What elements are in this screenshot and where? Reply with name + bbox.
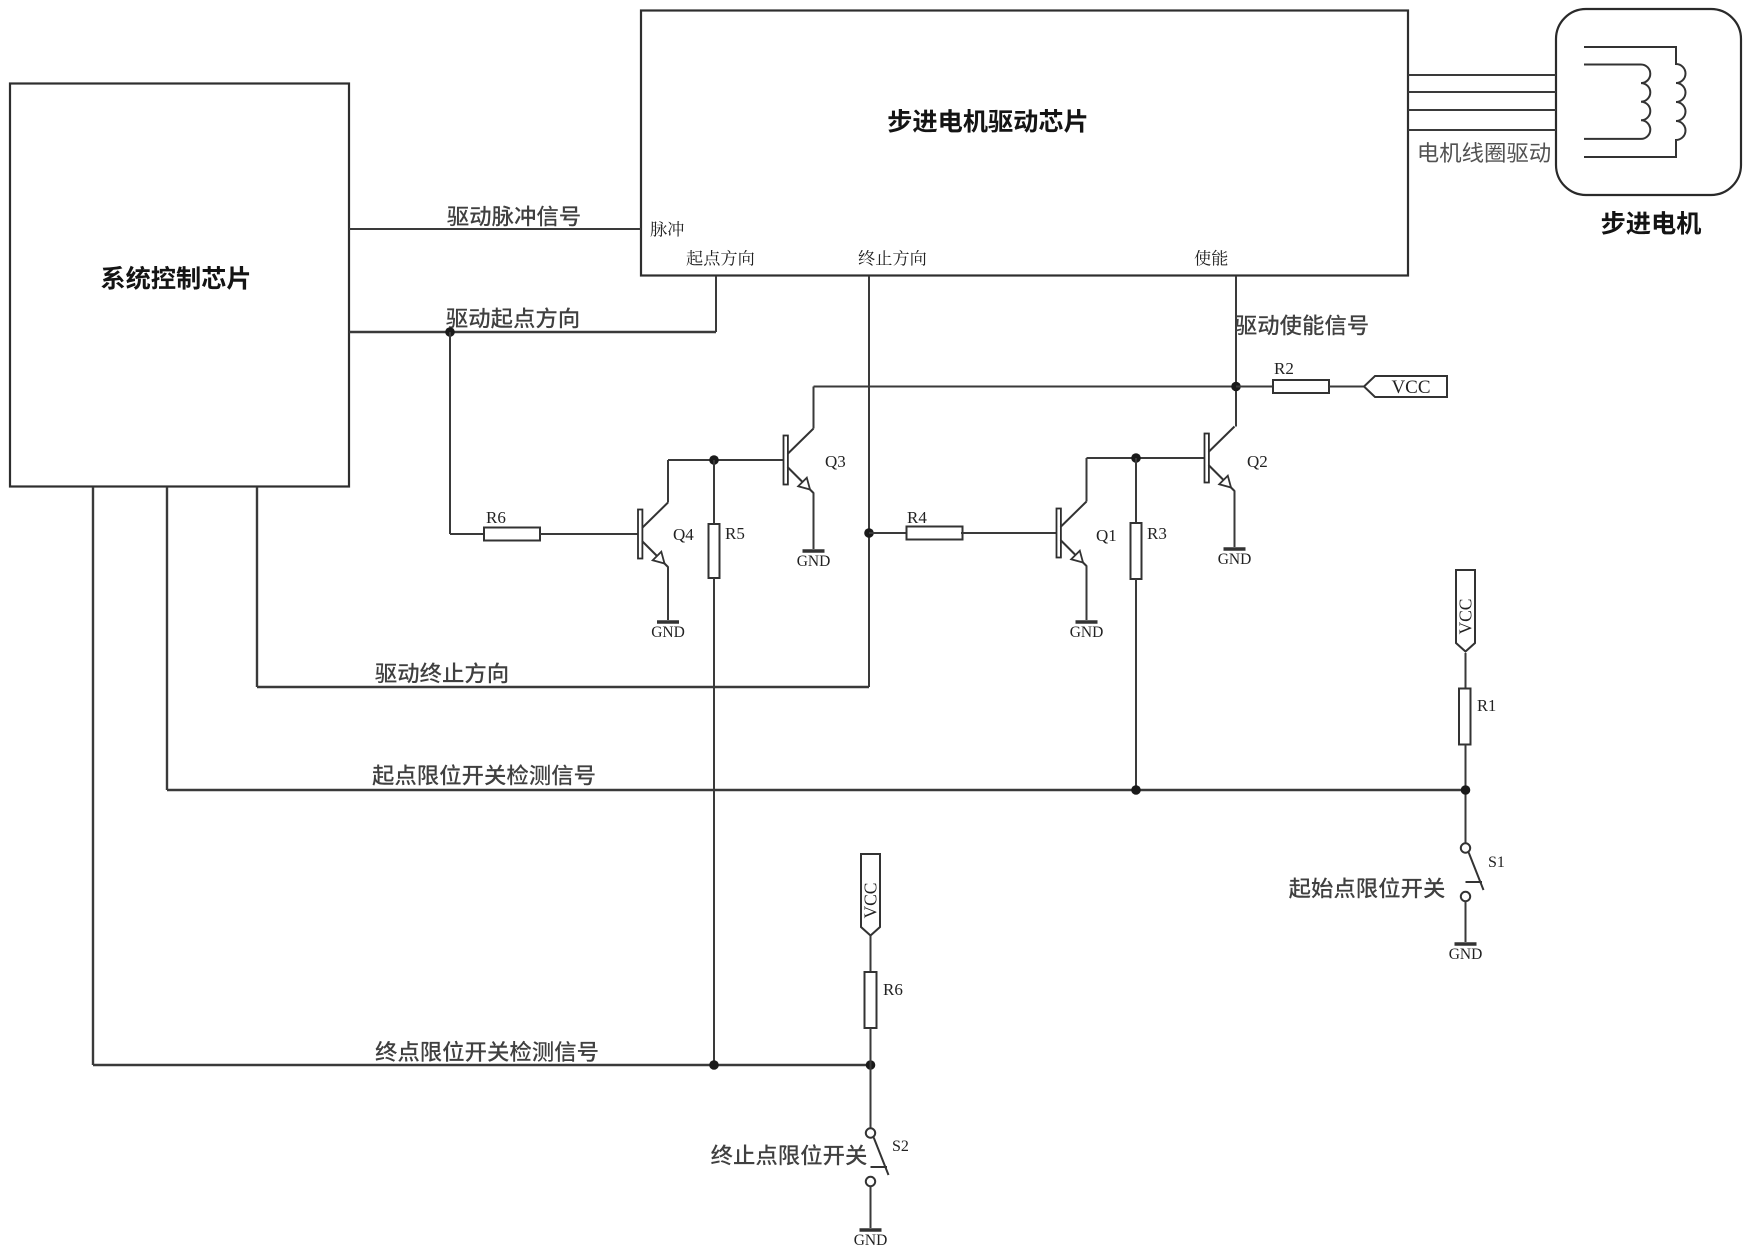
label 驱动脉冲信号 — [447, 205, 579, 226]
svg-text:GND: GND — [1449, 946, 1483, 963]
pin label 终止方向 — [859, 250, 926, 266]
label 起始点限位开关 — [1289, 877, 1445, 898]
power symbol VCC (R6 chain) — [860, 854, 880, 936]
resistor R6 (base of Q4) — [484, 508, 540, 541]
wire R6 to Q4 base — [540, 533, 638, 535]
svg-text:VCC: VCC — [1455, 599, 1475, 635]
pin label 起点方向 — [687, 250, 754, 266]
svg-text:R6: R6 — [486, 508, 506, 527]
ground Q3 — [797, 551, 831, 570]
svg-text:R5: R5 — [725, 524, 745, 543]
svg-text:GND: GND — [651, 624, 685, 641]
svg-text:VCC: VCC — [860, 883, 880, 919]
svg-text:R4: R4 — [907, 508, 927, 527]
wire end limit detect — [93, 487, 871, 1065]
wire Q2 emitter to ground — [1234, 491, 1236, 548]
label 驱动使能信号 — [1235, 314, 1367, 335]
wire R1 to junction — [1465, 745, 1467, 844]
svg-text:R2: R2 — [1274, 359, 1294, 378]
transistor Q1 — [1057, 502, 1087, 567]
wire R6 to junction — [870, 1028, 872, 1128]
power symbol VCC (enable pull-up) — [1364, 376, 1447, 398]
node start-limit/S1 junction — [1461, 785, 1471, 795]
node R3 junction — [1131, 453, 1141, 463]
resistor R2 — [1236, 359, 1329, 393]
ground Q2 — [1218, 549, 1252, 568]
svg-text:R3: R3 — [1147, 524, 1167, 543]
wire Q1 emitter to ground — [1086, 566, 1088, 621]
resistor R6 (pull-up) — [865, 972, 903, 1028]
label 电机线圈驱动 — [1420, 142, 1550, 163]
svg-text:GND: GND — [797, 553, 831, 570]
svg-text:GND: GND — [1218, 551, 1252, 568]
ground S1 — [1449, 944, 1483, 963]
pin label 脉冲 — [651, 221, 684, 237]
svg-text:R6: R6 — [883, 980, 903, 999]
node R4 branch — [864, 528, 874, 538]
node S2/end-limit junction — [866, 1060, 876, 1070]
svg-text:Q2: Q2 — [1247, 452, 1268, 471]
motor coil drive wires — [1408, 75, 1556, 130]
resistor R4 — [907, 508, 963, 540]
resistor R1 — [1459, 689, 1496, 745]
label Q3 — [825, 452, 846, 471]
stepper motor driver chip box — [641, 11, 1408, 276]
switch S1 — [1461, 843, 1484, 901]
svg-text:S1: S1 — [1488, 854, 1505, 871]
wire to R4 — [869, 532, 907, 534]
transistor Q3 — [784, 429, 814, 494]
wire S2 to ground — [870, 1186, 872, 1228]
ground Q1 — [1070, 622, 1104, 641]
system control chip box — [10, 84, 349, 487]
wire drive pulse (系统→脉冲) — [349, 228, 641, 230]
wire Q1 collector — [1087, 458, 1205, 502]
wire enable pin vertical — [1235, 276, 1237, 427]
label 驱动终止方向 — [375, 662, 507, 683]
wire Q4 emitter to ground — [667, 567, 669, 621]
wire drive end-direction horizontal — [257, 487, 869, 687]
resistor R3 — [1131, 458, 1167, 579]
svg-text:VCC: VCC — [1391, 377, 1430, 398]
transistor Q4 — [638, 503, 668, 568]
wire R3 bottom to start-limit line — [1135, 579, 1137, 790]
node R5/end-limit junction — [709, 1060, 719, 1070]
label 起点限位开关检测信号 — [372, 764, 594, 785]
wire drive start direction — [349, 276, 716, 332]
svg-text:Q4: Q4 — [673, 525, 694, 544]
node enable junction — [1231, 382, 1241, 392]
label 终点限位开关检测信号 — [376, 1041, 598, 1062]
label S1 — [1488, 854, 1505, 871]
pin label 使能 — [1195, 250, 1228, 266]
wire Q3 collector to enable net — [814, 387, 1237, 429]
label Q1 — [1096, 526, 1117, 545]
wire to R6 — [450, 332, 484, 534]
node start-direction junction — [445, 327, 455, 337]
wire R5 bottom to end-limit line — [713, 578, 715, 1065]
transistor Q2 — [1205, 427, 1235, 492]
wire Q4 collector — [668, 460, 784, 503]
wire Q3 emitter to ground — [813, 493, 815, 550]
wire VCC to R6 — [870, 936, 872, 973]
motor winding coil — [1584, 47, 1686, 157]
svg-text:S2: S2 — [892, 1138, 909, 1155]
label Q2 — [1247, 452, 1268, 471]
node R5 junction — [709, 455, 719, 465]
svg-text:GND: GND — [1070, 624, 1104, 641]
label 终止点限位开关 — [711, 1144, 867, 1165]
wire drive end direction vertical (终止方向 pin) — [868, 276, 870, 687]
svg-text:GND: GND — [854, 1232, 888, 1249]
ground S2 — [854, 1230, 888, 1249]
wire R2 to VCC — [1329, 386, 1364, 388]
power symbol VCC (R1 chain) — [1455, 570, 1475, 652]
stepper motor block — [1556, 9, 1741, 235]
label Q4 — [673, 525, 694, 544]
svg-text:R1: R1 — [1477, 696, 1496, 715]
label 驱动起点方向 — [446, 307, 578, 328]
svg-text:Q1: Q1 — [1096, 526, 1117, 545]
wire start limit detect — [167, 487, 1466, 790]
wire R4 to Q1 base — [961, 532, 1057, 534]
label S2 — [892, 1138, 909, 1155]
resistor R5 — [709, 460, 745, 578]
ground Q4 — [651, 622, 685, 641]
switch S2 — [866, 1128, 889, 1186]
wire S1 to ground — [1465, 901, 1467, 942]
node R3/start-limit junction — [1131, 785, 1141, 795]
wire VCC to R1 — [1465, 653, 1467, 688]
svg-text:Q3: Q3 — [825, 452, 846, 471]
